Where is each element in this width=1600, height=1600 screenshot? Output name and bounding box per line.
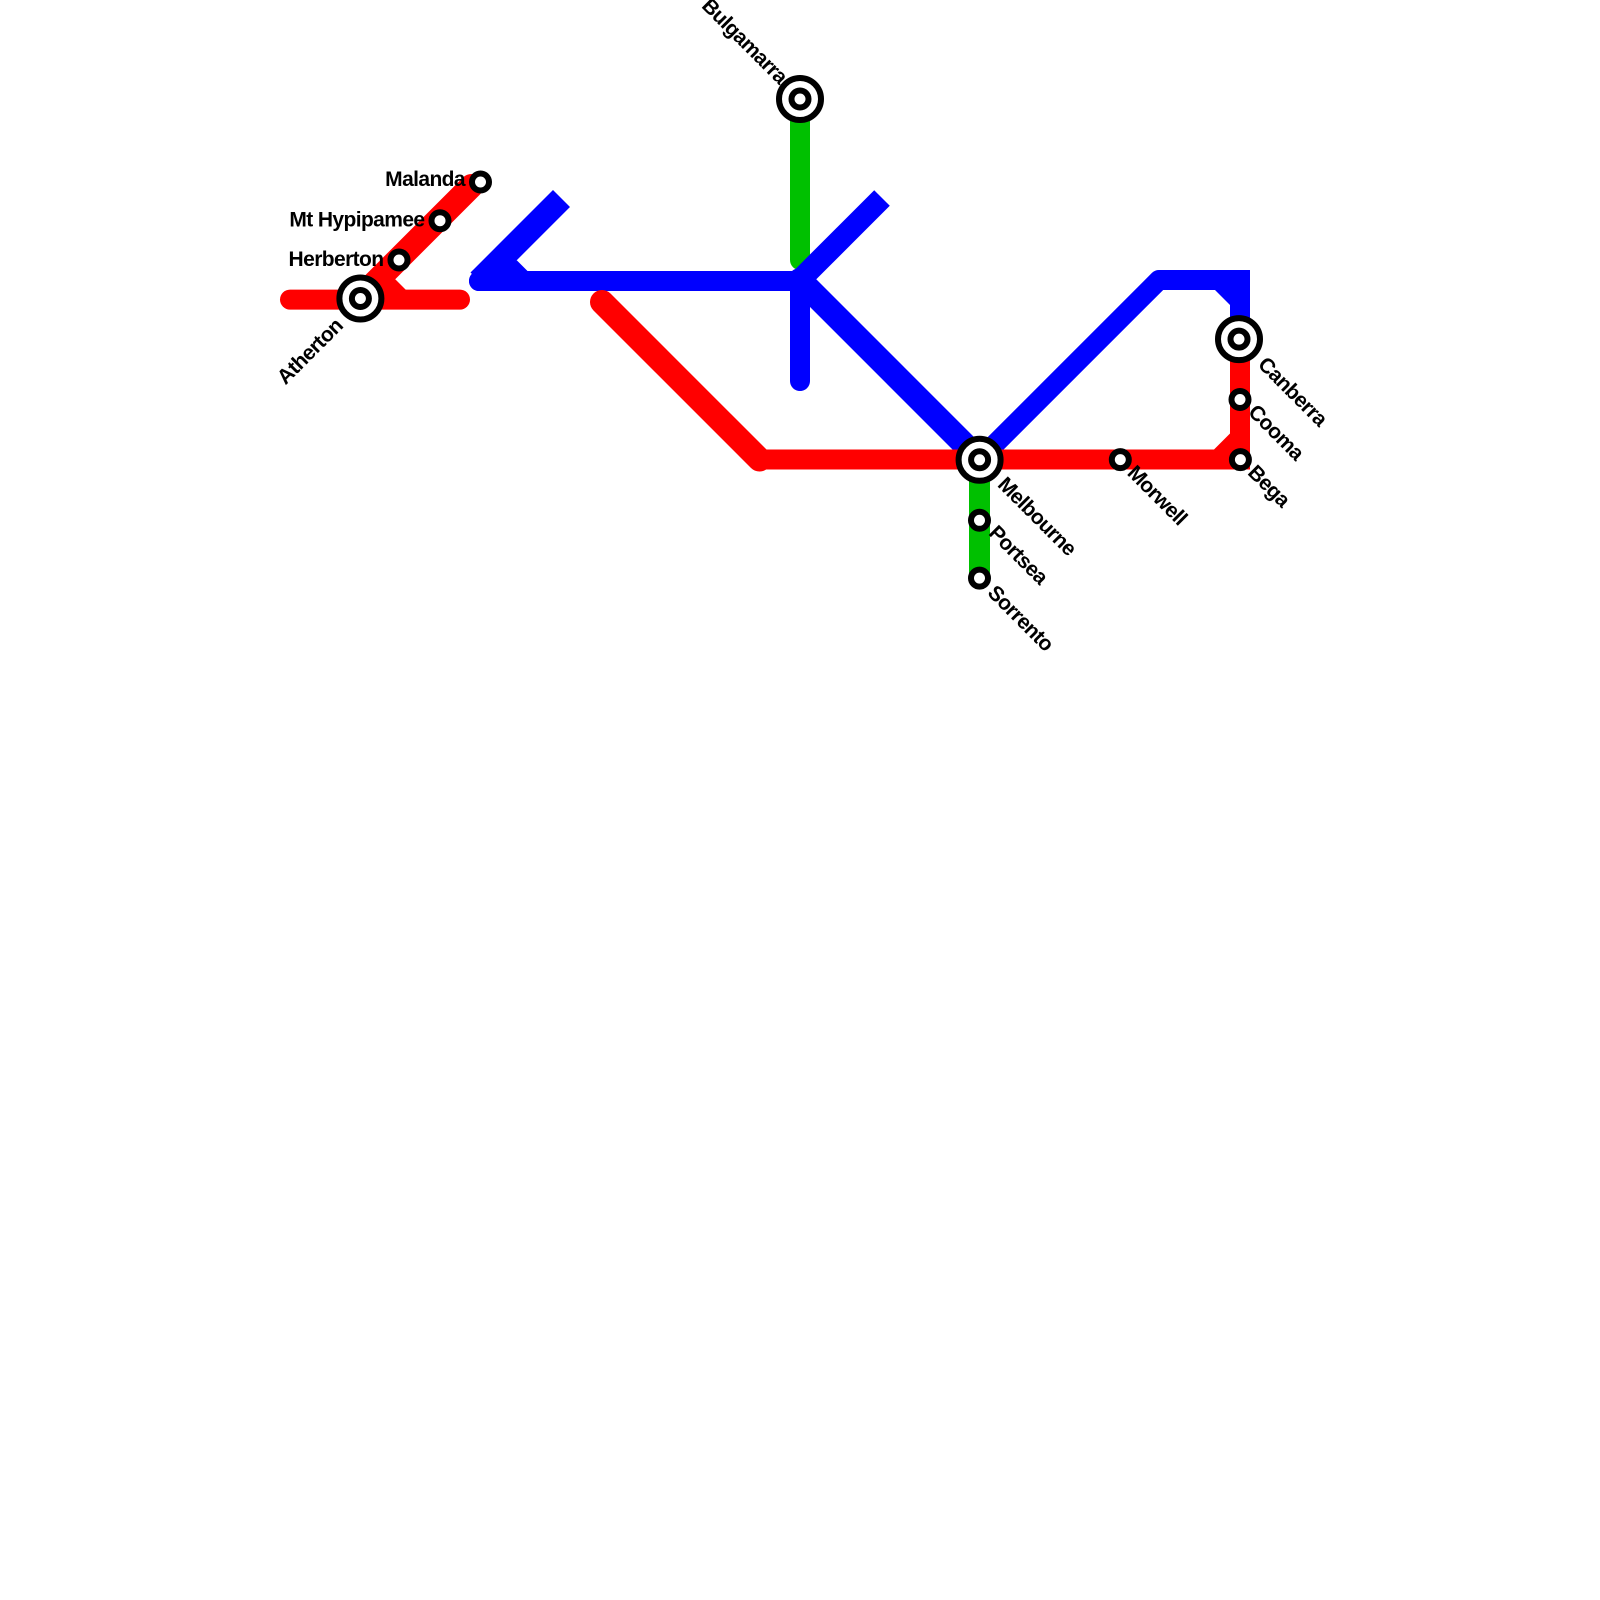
green segment Bulgamarra to junction <box>790 99 810 260</box>
blue K up-right stub <box>800 198 882 280</box>
interchange Melbourne <box>959 439 1001 481</box>
station Herberton <box>391 252 408 269</box>
station Cooma <box>1232 391 1249 408</box>
red NW diagonal <box>602 302 760 460</box>
svg-text:Herberton: Herberton <box>289 248 384 271</box>
station Bega <box>1232 451 1249 468</box>
station Sorrento <box>971 570 988 587</box>
blue vertical to Canberra <box>1230 270 1250 339</box>
blue wedge filler at arrow corner <box>500 260 530 273</box>
red connector at Bega corner <box>1221 441 1240 460</box>
svg-text:Mt Hypipamee: Mt Hypipamee <box>289 209 424 232</box>
interchange Bulgamarra <box>779 78 821 120</box>
station Malanda <box>472 174 489 191</box>
blue connector at Canberra corner <box>1222 280 1240 298</box>
station Mt Hypipamee <box>432 212 449 229</box>
red south horizontal through Melbourne <box>760 450 1251 470</box>
interchange Atherton <box>339 278 381 320</box>
blue K vertical stub <box>790 280 810 381</box>
blue arrow corner dot <box>469 271 489 291</box>
red west horizontal through Atherton <box>290 290 460 310</box>
station Morwell <box>1112 451 1129 468</box>
green segment Melbourne to Sorrento <box>969 458 990 578</box>
blue Melbourne to NE corner diagonal + horizontal <box>980 280 1246 460</box>
red wedge filler near Herberton <box>376 279 407 291</box>
blue arrow diagonal tip <box>479 199 562 282</box>
red Atherton-Malanda diagonal <box>352 186 472 306</box>
svg-text:Malanda: Malanda <box>385 168 466 191</box>
station Portsea <box>971 512 988 529</box>
blue K to Melbourne diagonal <box>800 280 980 460</box>
blue horizontal main <box>479 271 800 291</box>
interchange Canberra <box>1218 318 1260 360</box>
red vertical Bega to Canberra <box>1230 330 1250 470</box>
